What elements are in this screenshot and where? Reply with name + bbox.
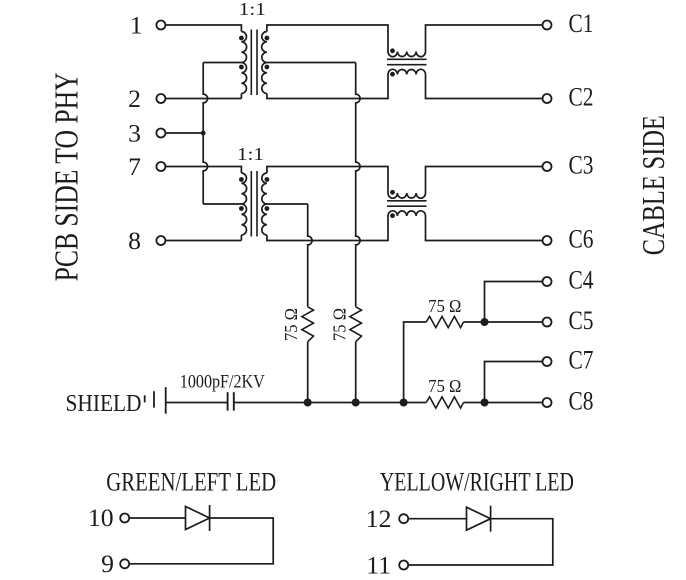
resistor R4 label: [428, 376, 461, 396]
svg-text:C6: C6: [569, 224, 594, 253]
node C5 junction: [481, 318, 489, 326]
pin 9 terminal: [101, 549, 129, 578]
common-mode choke L2 bottom dot: [390, 213, 395, 218]
wire T2 secondary bottom to CMC2: [267, 216, 388, 241]
transformer T2 label 1:1: [237, 144, 264, 164]
transformer T1 label 1:1: [239, 0, 266, 19]
wire CMC1 bottom to C2: [426, 75, 543, 99]
wire pin7 to T2 primary top: [165, 167, 241, 174]
wire LED D2 to pin11: [408, 519, 553, 565]
svg-text:1: 1: [130, 11, 143, 40]
node pin3 junction: [201, 131, 206, 136]
transformer T1 core: [251, 30, 257, 96]
pin 11 terminal: [366, 550, 408, 579]
label CABLE SIDE: [635, 115, 671, 255]
wire junction up to C4: [485, 282, 543, 323]
transformer T1 secondary phase dots: [265, 36, 270, 70]
wire CMC2 bottom to C6: [426, 216, 543, 241]
capacitor C9 label: [180, 372, 265, 393]
transformer T1 secondary winding: [262, 32, 267, 94]
resistor R3 label: [428, 296, 461, 316]
svg-text:C2: C2: [569, 82, 594, 111]
wire capacitor to shield bus: [234, 402, 426, 404]
wire T1 secondary bottom to CMC1: [267, 75, 388, 99]
svg-text:CABLE SIDE: CABLE SIDE: [635, 115, 671, 255]
svg-text:2: 2: [128, 84, 141, 113]
svg-text:C5: C5: [569, 306, 594, 335]
label PCB SIDE TO PHY: [48, 72, 85, 281]
node R1 shield junction: [304, 399, 312, 407]
wire T2 tap drop to R1: [308, 204, 312, 307]
terminal C3: [543, 150, 594, 179]
svg-text:12: 12: [366, 504, 392, 533]
wire CMC1 top to C1: [426, 25, 543, 52]
resistor R1 75ohm: [302, 307, 314, 342]
svg-text:10: 10: [88, 503, 114, 532]
capacitor C9 1000pF/2KV: [228, 392, 234, 410]
label SHIELD: [66, 390, 142, 417]
LED D2 yellow: [467, 506, 491, 532]
svg-text:C8: C8: [569, 386, 594, 415]
wire T1 primary center tap: [203, 62, 241, 64]
svg-text:GREEN/LEFT LED: GREEN/LEFT LED: [106, 468, 276, 497]
wire T1 tap drop to R2: [356, 63, 360, 307]
common-mode choke L1 core: [387, 59, 427, 64]
resistor R2 label: [330, 308, 350, 341]
svg-text:75 Ω: 75 Ω: [330, 308, 350, 341]
svg-text:C1: C1: [569, 9, 594, 38]
wire shield bus to R3: [404, 322, 427, 403]
wire pin10 to LED D1: [129, 517, 185, 519]
pin 7 terminal: [128, 152, 165, 181]
wire T1 secondary center tap: [267, 62, 356, 64]
pin 1 terminal: [130, 11, 166, 40]
LED D1 green: [186, 505, 210, 531]
resistor R4 75ohm: [426, 397, 463, 408]
label YELLOW/RIGHT LED: [380, 468, 574, 497]
svg-text:C3: C3: [569, 150, 594, 179]
wire pin2 to T1 primary bottom: [165, 94, 241, 99]
common-mode choke L1 bottom winding: [388, 69, 426, 74]
pin 10 terminal: [88, 503, 129, 532]
transformer T2 primary winding: [241, 173, 246, 235]
resistor R2 75ohm: [350, 307, 362, 342]
transformer T2 secondary winding: [262, 173, 267, 235]
common-mode choke L2 top winding: [388, 193, 426, 198]
node R2 shield junction: [352, 399, 360, 407]
common-mode choke L1 top winding: [388, 52, 426, 57]
wire R2 to shield bus: [355, 342, 357, 403]
wire junction up to C7: [485, 362, 543, 403]
wire pin1 to T1 primary top: [165, 25, 241, 32]
svg-text:YELLOW/RIGHT LED: YELLOW/RIGHT LED: [380, 468, 574, 497]
terminal C5: [543, 306, 594, 335]
wire R4 to C8: [464, 402, 543, 404]
transformer T2 core: [251, 171, 257, 237]
svg-text:9: 9: [101, 549, 114, 578]
wire T2 secondary center tap: [267, 203, 308, 205]
terminal C8: [543, 386, 594, 415]
svg-text:11: 11: [366, 550, 391, 579]
wire center-tap bus pin3: [203, 63, 207, 205]
svg-text:75 Ω: 75 Ω: [281, 308, 301, 341]
svg-text:7: 7: [128, 152, 141, 181]
node C8 junction: [481, 399, 489, 407]
svg-text:1000pF/2KV: 1000pF/2KV: [180, 372, 265, 393]
wire T2 secondary top to CMC2: [267, 167, 388, 194]
wire R3 to C5: [464, 321, 543, 323]
pin 8 terminal: [128, 226, 165, 255]
svg-text:C4: C4: [569, 265, 594, 294]
shield terminal symbol: [145, 387, 166, 414]
svg-text:1:1: 1:1: [237, 144, 264, 164]
wire pin12 to LED D2: [408, 518, 466, 520]
svg-text:3: 3: [128, 119, 141, 148]
svg-text:75 Ω: 75 Ω: [428, 296, 461, 316]
transformer T2 primary phase dots: [239, 177, 244, 211]
resistor R1 label: [281, 308, 301, 341]
terminal C4: [543, 265, 594, 294]
pin 12 terminal: [366, 504, 408, 533]
wire CMC2 top to C3: [426, 167, 543, 194]
pin 3 terminal: [128, 119, 165, 148]
node R3 shield junction: [400, 399, 408, 407]
common-mode choke L1 bottom dot: [390, 72, 395, 77]
svg-text:75 Ω: 75 Ω: [428, 376, 461, 396]
label GREEN/LEFT LED: [106, 468, 276, 497]
wire LED D1 to pin9: [129, 518, 273, 564]
svg-text:PCB SIDE TO PHY: PCB SIDE TO PHY: [48, 72, 85, 281]
common-mode choke L2 core: [387, 201, 427, 206]
wire pin3 to node: [165, 132, 203, 134]
transformer T1 primary phase dots: [239, 36, 244, 70]
common-mode choke L2 bottom winding: [388, 211, 426, 216]
wire T1 secondary top to CMC1: [267, 25, 388, 52]
common-mode choke L2 top dot: [390, 190, 395, 195]
terminal C7: [543, 345, 594, 374]
svg-text:C7: C7: [569, 345, 594, 374]
svg-text:8: 8: [128, 226, 141, 255]
transformer T2 secondary phase dots: [265, 177, 270, 211]
common-mode choke L1 top dot: [390, 48, 395, 53]
transformer T1 primary winding: [241, 32, 246, 94]
svg-text:1:1: 1:1: [239, 0, 266, 19]
resistor R3 75ohm: [426, 316, 463, 327]
terminal C6: [543, 224, 594, 253]
wire R1 to shield bus: [307, 342, 309, 403]
pin 2 terminal: [128, 84, 165, 113]
terminal C2: [543, 82, 594, 111]
wire pin8 to T2 primary bottom: [165, 235, 241, 241]
wire T2 primary center tap: [203, 203, 241, 205]
wire shield to capacitor: [166, 402, 227, 404]
terminal C1: [543, 9, 594, 38]
svg-text:SHIELD: SHIELD: [66, 390, 142, 417]
